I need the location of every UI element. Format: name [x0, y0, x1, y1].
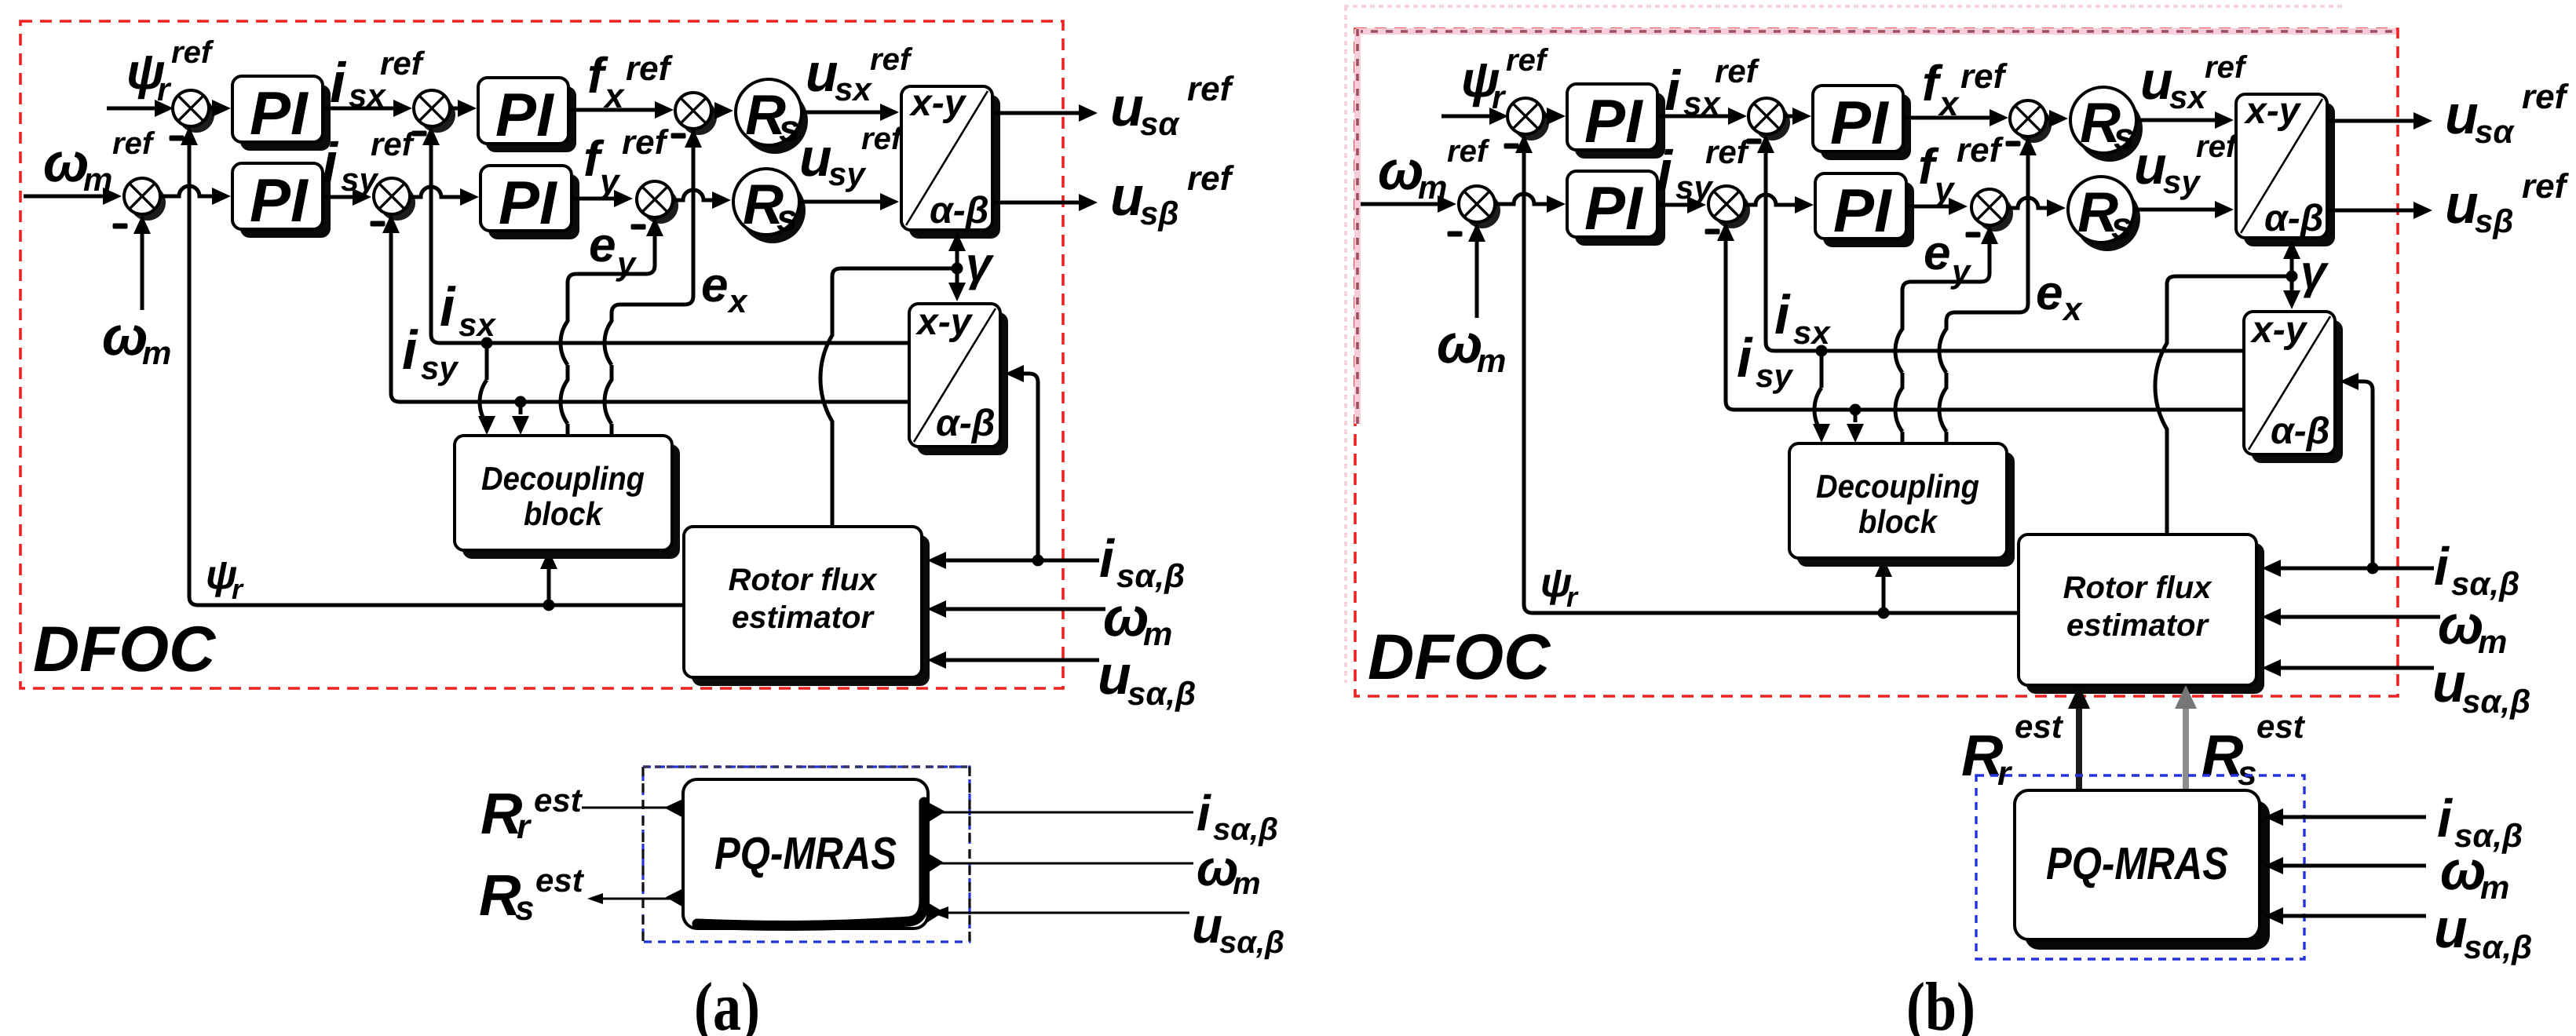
(b) wire gamma down into XY2 [2290, 276, 2294, 290]
(a) dark dashed top edge overlay [643, 765, 970, 768]
(a) wire PI4 to S6 (f_y ref) [572, 197, 619, 201]
svg-text:i: i [1774, 284, 1791, 345]
svg-text:est: est [2256, 708, 2306, 745]
(b) wire S1 to PI1 [1544, 115, 1551, 119]
svg-text:i: i [402, 319, 418, 381]
(a) wire PI2 to S3 (f_x ref) [568, 108, 660, 112]
(a) wire omega_m into estimator [941, 607, 1105, 611]
(b) minus at S2 [1747, 139, 1762, 144]
(a) wire i_salphabeta into PQ-MRAS [930, 812, 1193, 814]
(b) junction on i_salphabeta line [2367, 563, 2379, 575]
(b) summing junction S1 [1513, 104, 1549, 140]
svg-text:PI: PI [1584, 86, 1643, 155]
(a) wire PI3 to S5 (i_sy ref) [323, 195, 357, 199]
(b) wire S2 to PI2 [1785, 115, 1797, 119]
(a) minus at S5 [371, 221, 385, 227]
(b) wire e_x from decoupling block to S3 [1939, 139, 2028, 443]
svg-text:x: x [727, 283, 748, 319]
svg-text:i: i [1664, 60, 1682, 122]
(b) wire XY1 output u_salpha ref [2327, 119, 2418, 123]
(b) PI controller PI3 (speed) [1575, 180, 1665, 246]
svg-text:ref: ref [380, 45, 426, 82]
svg-text:Decoupling: Decoupling [1816, 468, 1979, 505]
(b) wire PI1 to S2 (i_sx ref) [1657, 115, 1733, 119]
svg-text:α-β: α-β [2271, 410, 2330, 452]
svg-text:e: e [2036, 266, 2063, 320]
(b) wire psi_r feedback from estimator to S1 [1524, 137, 2019, 613]
svg-text:i: i [322, 132, 339, 195]
(b) pink band on upper left border [1354, 29, 1361, 424]
(a) decoupling block [462, 444, 680, 559]
svg-text:ω: ω [2440, 840, 2486, 901]
svg-text:s: s [779, 108, 800, 150]
svg-text:s: s [776, 198, 798, 239]
(b) faint pink outer halo border [1344, 6, 2344, 683]
svg-text:PI: PI [250, 166, 309, 235]
svg-text:sy: sy [1756, 357, 1794, 394]
svg-text:i: i [1657, 140, 1674, 202]
(b) summing junction S3 [2015, 107, 2052, 143]
(a) wire i_salphabeta into estimator [941, 559, 1099, 563]
svg-text:ref: ref [1506, 43, 1549, 78]
(b) PI controller PI4 (i_sy) [1823, 182, 1914, 247]
(a) wire e_y from decoupling block to S6 [561, 220, 655, 436]
(a) junction on i_sx line [481, 337, 493, 349]
(b) rotor flux estimator block [2026, 543, 2264, 694]
(b) PI controller PI2 (i_sx) [1821, 94, 1911, 160]
svg-text:e: e [701, 258, 728, 312]
svg-text:sx: sx [2169, 78, 2207, 115]
svg-text:ref: ref [2522, 78, 2570, 116]
(b) gain block Rs2 [2074, 185, 2140, 251]
(a) wire psi_r branch into decoupling block [547, 553, 551, 605]
svg-text:s: s [2238, 754, 2256, 793]
(b) minus at S4 [1448, 232, 1463, 237]
(b) wire Rs2 to XY1 (u_sy ref) [2134, 208, 2220, 212]
svg-text:sx: sx [459, 306, 496, 343]
svg-text:PI: PI [495, 80, 554, 149]
svg-text:est: est [2015, 708, 2064, 745]
svg-text:u: u [1192, 897, 1222, 954]
svg-text:u: u [2432, 652, 2466, 713]
(a) wire Rs2 to XY1 (u_sy ref) [799, 200, 885, 204]
svg-text:s: s [515, 889, 534, 928]
(a) blue dashed boundary of PQ-MRAS [643, 767, 970, 942]
(b) coordinate transform block XY2 (alpha-beta to x-y) [2252, 320, 2343, 463]
(a) wire i_sy branch into decoupling block [519, 402, 523, 414]
(a) wire gamma from estimator to transforms [820, 268, 957, 527]
svg-text:PI: PI [1584, 173, 1643, 243]
svg-text:u: u [2134, 136, 2167, 195]
svg-text:ω: ω [1103, 586, 1149, 647]
svg-text:est: est [535, 862, 585, 899]
(a) black dashed right edge overlay [968, 767, 970, 942]
svg-text:ref: ref [870, 42, 913, 77]
(b) summing junction S2 [1754, 104, 1790, 140]
(a) wire omega_m up into S4 [141, 217, 144, 310]
svg-text:i: i [1197, 785, 1211, 841]
(b) summing junction S6 [1977, 195, 2013, 232]
svg-text:x-y: x-y [2243, 90, 2302, 132]
svg-text:ref: ref [1957, 131, 2004, 170]
svg-text:r: r [1997, 754, 2013, 793]
svg-text:estimator: estimator [732, 600, 875, 635]
svg-text:PQ-MRAS: PQ-MRAS [714, 828, 897, 879]
svg-text:γ: γ [2300, 246, 2329, 298]
(a) wire psi_r feedback from estimator to S1 [189, 129, 684, 605]
svg-text:u: u [2140, 51, 2173, 111]
svg-text:i: i [2434, 537, 2450, 596]
svg-text:u: u [1098, 644, 1131, 706]
(b) wire S6 to Rs2 [2008, 198, 2052, 208]
svg-text:x-y: x-y [915, 301, 974, 343]
(b) wire psi_r branch into decoupling block [1882, 560, 1886, 613]
(a) wire i_sx from XY2 to S2 [431, 129, 909, 343]
svg-text:sα: sα [2475, 113, 2515, 150]
(a) junction on i_salphabeta line [1032, 555, 1044, 567]
svg-text:u: u [1110, 76, 1144, 137]
(b) blue dashed boundary of PQ-MRAS [1976, 775, 2304, 959]
(b) wire omega_m up into S4 [1475, 225, 1479, 318]
(b) maroon dashes on top border [1356, 30, 2396, 33]
svg-text:r: r [517, 808, 532, 846]
svg-text:u: u [2445, 84, 2479, 145]
svg-text:i: i [1737, 327, 1753, 388]
(b) wire i_sy branch into decoupling block [1854, 410, 1858, 422]
svg-text:u: u [1110, 166, 1144, 227]
(b) wire R_r est arrow into estimator [2076, 705, 2082, 789]
svg-text:PI: PI [499, 168, 557, 237]
svg-text:sx: sx [1683, 85, 1721, 122]
(a) wire Rs1 to XY1 (u_sx ref) [802, 111, 885, 115]
(a) summing junction S5 [379, 184, 415, 221]
(b) junction on psi_r line [1878, 607, 1890, 619]
(b) junction on gamma line [2286, 271, 2298, 283]
(a) PI controller PI2 (i_sx) [486, 86, 576, 152]
(a) PI controller PI3 (speed) [240, 172, 331, 238]
(b) DFOC red dashed boundary box [1355, 29, 2398, 696]
(b) wire omega_m into estimator [2276, 615, 2440, 619]
(b) wire PI2 to S3 (f_x ref) [1903, 116, 1994, 120]
(b) junction on i_sx line [1816, 345, 1828, 357]
svg-text:x: x [1938, 85, 1960, 123]
svg-text:ref: ref [2196, 129, 2239, 164]
svg-text:ω: ω [2438, 594, 2483, 655]
(b) coordinate transform block XY1 (x-y to alpha-beta) [2244, 103, 2335, 246]
svg-text:x-y: x-y [908, 82, 967, 124]
svg-text:ω: ω [1378, 140, 1423, 201]
(a) junction on gamma line [952, 263, 963, 275]
svg-text:r: r [232, 573, 244, 605]
svg-text:DFOC: DFOC [33, 614, 217, 685]
svg-text:ref: ref [1187, 70, 1235, 108]
(a) wire u_salphabeta into PQ-MRAS [934, 912, 1189, 914]
svg-text:m: m [1233, 866, 1261, 901]
svg-text:PI: PI [250, 78, 309, 148]
svg-text:e: e [1924, 226, 1950, 280]
svg-text:m: m [142, 334, 171, 371]
(a) wire omega_m into PQ-MRAS [930, 863, 1193, 865]
(b) decoupling block [1797, 452, 2015, 567]
(a) DFOC red dashed boundary box [20, 21, 1063, 688]
svg-text:α-β: α-β [930, 190, 989, 232]
(a) coordinate transform block XY1 (x-y to alpha-beta) [909, 95, 1000, 239]
(a) summing junction S6 [642, 188, 678, 224]
(b) wire PI3 to S5 (i_sy ref) [1657, 203, 1692, 207]
(b) wire omega_m ref input [1358, 202, 1442, 206]
svg-text:ref: ref [1447, 134, 1490, 169]
(b) wire e_y from decoupling block to S6 [1895, 228, 1990, 443]
svg-text:sα,β: sα,β [2462, 683, 2530, 720]
svg-text:sy: sy [421, 349, 459, 386]
(a) PI controller PI1 (flux) [240, 85, 331, 151]
(b) wire gamma up into XY1 [2290, 259, 2294, 276]
svg-text:y: y [598, 162, 621, 201]
svg-text:γ: γ [966, 238, 995, 290]
(a) junction on i_sy line [515, 396, 527, 408]
(a) PI controller PI4 (i_sy) [488, 174, 579, 239]
(b) wire i_sx branch into decoupling block [1814, 351, 1821, 432]
(a) summing junction S1 [178, 97, 214, 133]
svg-text:Decoupling: Decoupling [481, 460, 645, 497]
(a) wire omega_m ref input [24, 195, 108, 199]
(a) minus at S1 [170, 136, 185, 141]
(b) wire psi_r ref input [1441, 115, 1494, 119]
svg-text:ω: ω [102, 305, 148, 367]
svg-text:ω: ω [43, 132, 89, 193]
(a) wire S3 to Rs1 [711, 109, 719, 113]
(b) wire i_sx from XY2 to S2 [1766, 137, 2244, 351]
(a) PQ-MRAS connector pinches [664, 798, 685, 908]
svg-text:ref: ref [2522, 167, 2570, 206]
svg-text:i: i [440, 276, 456, 337]
(b) wire i_salphabeta riser into XY2 [2357, 381, 2373, 568]
svg-text:(b): (b) [1906, 969, 1975, 1036]
svg-text:(a): (a) [694, 969, 760, 1036]
(b) PI controller PI1 (flux) [1575, 93, 1665, 159]
svg-text:ω: ω [1437, 313, 1482, 374]
(a) wire S2 to PI2 [450, 107, 462, 111]
(a) wire u_salphabeta into estimator [941, 658, 1099, 662]
svg-text:sα,β: sα,β [1127, 675, 1196, 712]
(a) wire XY1 output u_sbeta ref [992, 201, 1083, 205]
svg-text:PI: PI [1833, 176, 1892, 245]
svg-text:s: s [2111, 206, 2132, 247]
svg-text:sx: sx [349, 77, 386, 114]
(a) junction on psi_r line [543, 600, 555, 611]
(a) wire S1 to PI1 [209, 107, 217, 111]
(b) wire R_s est arrow into estimator [2183, 705, 2189, 789]
svg-text:y: y [616, 245, 638, 282]
svg-text:sα,β: sα,β [1219, 925, 1284, 960]
(b) gain block Rs1 [2077, 96, 2143, 162]
(b) maroon dashes on upper left border [1356, 29, 1359, 424]
svg-text:u: u [799, 128, 832, 188]
svg-text:ref: ref [1187, 159, 1235, 198]
svg-text:PQ-MRAS: PQ-MRAS [2046, 838, 2228, 889]
(b) wire u_salphabeta into estimator [2276, 666, 2434, 670]
svg-text:x-y: x-y [2249, 309, 2308, 351]
svg-text:sy: sy [2163, 163, 2201, 200]
svg-text:s: s [2114, 116, 2135, 158]
svg-text:i: i [1099, 529, 1116, 589]
(a) wire i_sx branch into decoupling block [480, 343, 487, 424]
(a) wire gamma up into XY1 [955, 251, 959, 268]
svg-text:Rotor flux: Rotor flux [2063, 571, 2213, 605]
svg-text:m: m [2480, 869, 2509, 906]
(a) wire i_sy from XY2 to S5 [391, 217, 909, 402]
svg-text:block: block [524, 495, 604, 532]
(a) wire i_salphabeta riser into XY2 [1022, 374, 1038, 560]
(b) wire XY1 output u_sbeta ref [2327, 209, 2418, 213]
(a) wire S5 to PI4 [410, 187, 465, 197]
svg-text:ref: ref [1715, 53, 1760, 89]
(a) summing junction S4 [130, 184, 166, 221]
svg-text:y: y [1950, 253, 1972, 290]
(b) summing junction S4 [1464, 192, 1500, 228]
(a) wire XY1 output u_salpha ref [992, 111, 1083, 115]
svg-text:ref: ref [2205, 50, 2248, 85]
(a) gain block Rs1 [742, 88, 808, 154]
(b) wire i_salphabeta into PQ-MRAS [2278, 815, 2426, 819]
svg-text:estimator: estimator [2066, 608, 2209, 643]
svg-text:sx: sx [835, 71, 872, 108]
svg-text:α-β: α-β [2264, 198, 2324, 239]
(b) wire S5 to PI4 [1745, 195, 1800, 205]
svg-text:ref: ref [626, 49, 674, 88]
(a) wire gamma down into XY2 [955, 268, 959, 283]
svg-text:sα,β: sα,β [2464, 928, 2532, 965]
(b) junction on i_sy line [1850, 404, 1862, 416]
(b) minus at S1 [1504, 144, 1519, 149]
(b) minus at S3 [2006, 141, 2021, 147]
svg-text:ref: ref [371, 126, 416, 162]
svg-text:y: y [1933, 170, 1956, 209]
svg-text:sβ: sβ [1140, 195, 1178, 232]
(a) minus at S2 [412, 131, 427, 137]
(a) black dashed left edge overlay [641, 767, 644, 942]
(a) rotor flux estimator block [692, 535, 930, 686]
svg-text:block: block [1858, 503, 1938, 540]
(b) minus at S5 [1705, 229, 1720, 235]
(b) wire gamma from estimator to transforms [2155, 276, 2292, 534]
(b) wire u_salphabeta into PQ-MRAS [2278, 914, 2426, 918]
svg-text:sy: sy [828, 155, 867, 192]
svg-text:u: u [806, 43, 839, 103]
svg-text:m: m [1477, 342, 1506, 379]
(a) minus at S4 [113, 224, 128, 229]
svg-text:r: r [1566, 581, 1579, 613]
(a) coordinate transform block XY2 (alpha-beta to x-y) [917, 312, 1008, 455]
(b) summing junction S5 [1714, 192, 1750, 228]
svg-text:ref: ref [1705, 133, 1751, 170]
(b) wire Rs1 to XY1 (u_sx ref) [2136, 119, 2220, 122]
svg-text:ref: ref [861, 122, 904, 156]
svg-text:sα: sα [1140, 105, 1180, 142]
svg-text:sx: sx [1793, 314, 1831, 351]
svg-text:α-β: α-β [936, 403, 996, 444]
(b) pink band on top border [1356, 28, 2396, 35]
(a) wire R_s est output [591, 898, 682, 900]
(b) wire PI4 to S6 (f_y ref) [1906, 205, 1953, 209]
svg-text:ref: ref [622, 123, 670, 162]
(a) wire psi_r ref input [107, 107, 159, 111]
(a) wire e_x from decoupling block to S3 [605, 131, 693, 436]
(a) wire S4 to PI3 [160, 186, 217, 196]
(a) gain block Rs2 [740, 177, 806, 243]
svg-text:est: est [534, 782, 583, 819]
(a) PQ-MRAS block (hand drawn) [683, 779, 928, 928]
svg-text:u: u [2445, 173, 2479, 235]
svg-text:m: m [2478, 623, 2507, 660]
(b) PQ-MRAS block [2025, 801, 2270, 950]
(a) wire PI1 to S2 (i_sx ref) [323, 107, 398, 111]
svg-text:i: i [330, 52, 347, 115]
svg-text:Rotor flux: Rotor flux [729, 563, 879, 597]
(a) minus at S3 [671, 133, 686, 139]
(b) wire S3 to Rs1 [2046, 117, 2054, 121]
(b) wire S4 to PI3 [1495, 194, 1551, 204]
(a) wire S6 to Rs2 [673, 190, 717, 200]
svg-text:ref: ref [112, 126, 155, 161]
svg-text:ref: ref [171, 35, 214, 70]
(b) wire i_sy from XY2 to S5 [1726, 224, 2244, 410]
svg-text:DFOC: DFOC [1368, 622, 1551, 693]
(a) summing junction S3 [681, 99, 717, 135]
(b) wire i_salphabeta into estimator [2276, 567, 2434, 571]
svg-text:ref: ref [1960, 57, 2008, 96]
svg-text:u: u [2434, 898, 2468, 959]
svg-text:PI: PI [1830, 88, 1889, 157]
(a) summing junction S2 [419, 97, 455, 133]
svg-text:e: e [589, 218, 616, 272]
svg-text:m: m [1143, 615, 1172, 652]
svg-text:x: x [2062, 290, 2083, 327]
(b) wire omega_m into PQ-MRAS [2278, 864, 2426, 868]
svg-text:x: x [603, 77, 625, 115]
svg-text:sβ: sβ [2475, 202, 2513, 239]
(a) wire R_r est output [582, 807, 682, 809]
